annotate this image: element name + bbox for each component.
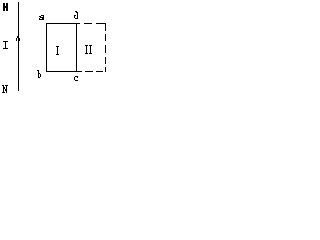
region I label (inside solid rectangle, pixel glyph): [56, 46, 59, 55]
rectangle I: bottom edge (side b-c): [46, 71, 77, 72]
rectangle I: right edge (side d-c): [76, 23, 77, 72]
node M label (pixel glyph): [3, 3, 8, 11]
rectangle I: left edge (side a-b): [46, 23, 47, 72]
dashed rectangle II: right edge dashes: [105, 23, 106, 31]
arrowhead on line MN (pointing up): [17, 36, 18, 38]
node d label (pixel glyph): [74, 11, 78, 19]
node I label (left of line, pixel glyph): [3, 41, 8, 49]
node b label (pixel glyph): [37, 70, 41, 78]
node a label (pixel glyph): [39, 15, 44, 20]
region II label (inside dashed rectangle, pixel glyph): [85, 45, 92, 54]
dashed rectangle II: top edge dashes: [77, 23, 80, 24]
node c label (pixel glyph): [74, 76, 78, 81]
wire: vertical line MN: [18, 2, 19, 91]
rectangle I: top edge (side a-d): [46, 23, 77, 24]
dashed rectangle II: bottom edge dashes: [77, 71, 82, 72]
node N label (pixel glyph): [2, 85, 8, 93]
